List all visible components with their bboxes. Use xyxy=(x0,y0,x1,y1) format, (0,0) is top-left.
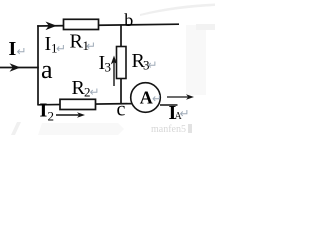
wire: output lead right of ammeter xyxy=(160,104,178,106)
label IA with return mark xyxy=(169,102,190,124)
label R3 with return mark xyxy=(132,50,158,73)
label I2 xyxy=(40,100,55,124)
svg-text:↵: ↵ xyxy=(90,85,100,99)
resistor R3 xyxy=(117,47,127,79)
svg-text:manfen5: manfen5 xyxy=(151,124,186,135)
svg-text:↵: ↵ xyxy=(148,58,158,72)
current arrow I3 pointing up xyxy=(111,56,117,87)
resistor R2 xyxy=(60,99,96,109)
svg-text:A: A xyxy=(140,88,153,108)
svg-text:a: a xyxy=(41,55,53,84)
current arrow I2 xyxy=(56,112,85,118)
wire: bottom branch from a corner to ammeter xyxy=(38,104,133,105)
wire: input lead with current arrow I xyxy=(0,63,39,72)
label I with return mark xyxy=(9,38,27,60)
label I3 xyxy=(99,52,112,75)
wire: middle vertical branch from b to c xyxy=(120,25,122,105)
svg-text:↵: ↵ xyxy=(152,92,162,106)
wire: left vertical branch xyxy=(37,25,39,105)
current arrow I1 on top wire xyxy=(46,22,57,31)
label I1 with return mark xyxy=(45,33,67,56)
svg-text:↵: ↵ xyxy=(17,45,27,59)
svg-text:c: c xyxy=(117,99,126,121)
svg-text:I: I xyxy=(9,38,17,60)
label R2 with return mark xyxy=(72,77,100,100)
svg-text:b: b xyxy=(124,10,133,30)
svg-text:↵: ↵ xyxy=(180,107,190,121)
svg-text:R: R xyxy=(70,31,84,53)
svg-text:2: 2 xyxy=(48,109,55,124)
svg-text:3: 3 xyxy=(105,60,112,75)
svg-text:↵: ↵ xyxy=(56,42,66,56)
current arrow IA xyxy=(167,94,194,100)
svg-text:I: I xyxy=(40,100,48,122)
resistor R1 xyxy=(64,19,99,29)
svg-text:↵: ↵ xyxy=(86,39,96,53)
wire: top branch from node a corner to right open end xyxy=(37,24,179,26)
label R1 with return mark xyxy=(70,31,97,54)
ammeter A1 xyxy=(131,83,162,113)
